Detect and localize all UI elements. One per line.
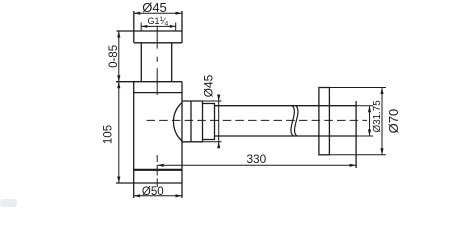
dim Ø70: extension lines xyxy=(329,88,386,155)
bottom flange left extension tick xyxy=(116,182,134,184)
faint scanner smudge bottom-left xyxy=(0,199,17,207)
dim G1 1/4: line xyxy=(141,25,176,27)
dim Ø31.75: line xyxy=(369,106,371,136)
arrows dim Ø50 xyxy=(134,194,141,197)
wall flange xyxy=(319,88,330,155)
svg-text:Ø50: Ø50 xyxy=(142,186,164,198)
tube adapter collar xyxy=(203,104,215,140)
vertical centerline of body xyxy=(156,26,158,187)
outlet tube xyxy=(215,106,357,136)
flange top edge extension to left xyxy=(117,30,134,32)
tube break squiggle (double wavy break lines) xyxy=(291,106,298,136)
svg-text:330: 330 xyxy=(246,152,266,166)
svg-text:Ø45: Ø45 xyxy=(142,0,167,15)
arrows dim Ø45 top xyxy=(134,12,141,15)
svg-text:0-85: 0-85 xyxy=(108,45,120,68)
svg-text:Ø45: Ø45 xyxy=(202,74,216,97)
arrows dim G1 1/4 xyxy=(141,25,147,28)
svg-text:105: 105 xyxy=(102,125,114,144)
arrows dim 105 xyxy=(117,82,120,89)
compression nut xyxy=(182,101,203,142)
bottom flange top seam (thick) xyxy=(134,169,182,171)
dim Ø31.75: extension lines xyxy=(356,106,373,136)
dim Ø45 top: line xyxy=(134,12,182,14)
bottom flange bottom edge xyxy=(134,182,182,184)
dim Ø70: line xyxy=(381,88,383,155)
arrows dim 0-85 xyxy=(117,31,120,38)
arrows dim Ø70 xyxy=(380,88,383,95)
dim Ø50: line xyxy=(134,195,182,197)
nut-body intersection arc xyxy=(173,103,182,142)
arrows dim Ø31.75 xyxy=(368,106,371,113)
tube end with extension down xyxy=(355,101,357,168)
arrows dim Ø45 tube (outside, pointing inward) xyxy=(217,95,220,102)
dim Ø45 tube: extension lines xyxy=(203,101,222,142)
horizontal centerline of outlet tube xyxy=(147,119,368,121)
arrows dim 330 xyxy=(157,164,164,167)
inlet pipe xyxy=(141,43,171,82)
dim Ø45 tube: line xyxy=(218,95,220,147)
dim 330: line xyxy=(157,164,356,166)
svg-text:Ø70: Ø70 xyxy=(386,109,401,134)
dim 0-85: line xyxy=(118,31,120,82)
top flange (G1 1/4 union) xyxy=(134,11,182,43)
svg-text:Ø31.75: Ø31.75 xyxy=(372,100,383,133)
body lid seam xyxy=(134,92,182,94)
body left edge with extension down xyxy=(133,82,135,198)
body right edge with extension down xyxy=(181,82,183,198)
dim G1 1/4: extension lines xyxy=(141,23,176,32)
body top edge with extension to left xyxy=(116,81,182,83)
dim 105: line xyxy=(118,82,120,183)
